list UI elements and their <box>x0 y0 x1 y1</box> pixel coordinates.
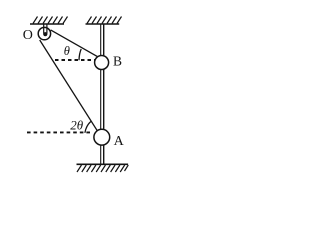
svg-text:A: A <box>114 134 125 149</box>
svg-text:B: B <box>113 53 122 68</box>
svg-text:2θ: 2θ <box>70 118 84 133</box>
svg-text:O: O <box>23 28 33 43</box>
svg-text:θ: θ <box>64 44 70 58</box>
